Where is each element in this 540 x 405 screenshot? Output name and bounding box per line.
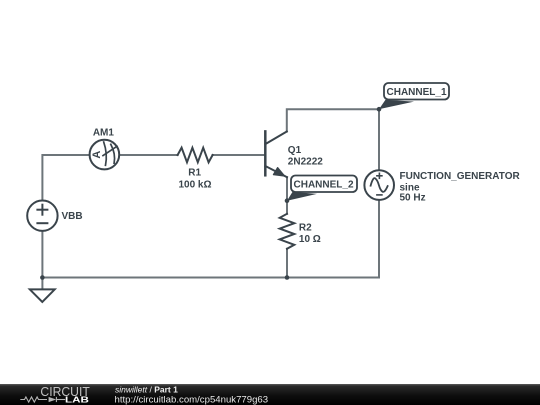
svg-text:2N2222: 2N2222: [288, 157, 323, 168]
svg-text:R1: R1: [188, 168, 201, 179]
svg-text:Q1: Q1: [288, 145, 302, 156]
svg-text:A: A: [91, 151, 103, 159]
svg-text:FUNCTION_GENERATOR: FUNCTION_GENERATOR: [400, 171, 521, 182]
svg-text:R2: R2: [299, 223, 312, 234]
svg-text:LAB: LAB: [65, 395, 89, 405]
svg-text:http://circuitlab.com/cp54nuk7: http://circuitlab.com/cp54nuk779g63: [115, 395, 269, 405]
svg-text:50 Hz: 50 Hz: [400, 193, 426, 204]
svg-text:10 Ω: 10 Ω: [299, 234, 321, 245]
svg-text:AM1: AM1: [93, 127, 115, 138]
svg-text:sinwillett / Part 1: sinwillett / Part 1: [115, 385, 178, 395]
svg-text:CHANNEL_1: CHANNEL_1: [387, 87, 447, 98]
svg-text:100 kΩ: 100 kΩ: [178, 180, 211, 191]
svg-text:VBB: VBB: [62, 211, 83, 222]
svg-text:CHANNEL_2: CHANNEL_2: [294, 180, 354, 191]
